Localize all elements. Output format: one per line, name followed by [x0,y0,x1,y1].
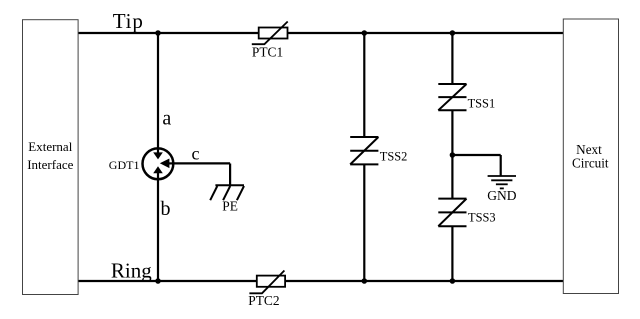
svg-text:TSS2: TSS2 [380,149,408,163]
svg-text:GDT1: GDT1 [109,158,140,172]
svg-text:External: External [28,139,72,154]
svg-text:Circuit: Circuit [572,156,609,171]
svg-text:PTC2: PTC2 [248,293,279,308]
svg-text:GND: GND [487,188,516,203]
svg-text:TSS1: TSS1 [468,97,496,111]
svg-text:PE: PE [222,198,238,213]
svg-text:TSS3: TSS3 [468,211,496,225]
svg-text:Tip: Tip [113,9,144,33]
svg-text:Interface: Interface [27,157,73,172]
svg-text:b: b [161,198,171,220]
svg-text:a: a [162,107,171,129]
svg-text:c: c [192,144,200,164]
svg-text:Ring: Ring [111,258,152,282]
svg-text:PTC1: PTC1 [252,44,283,59]
